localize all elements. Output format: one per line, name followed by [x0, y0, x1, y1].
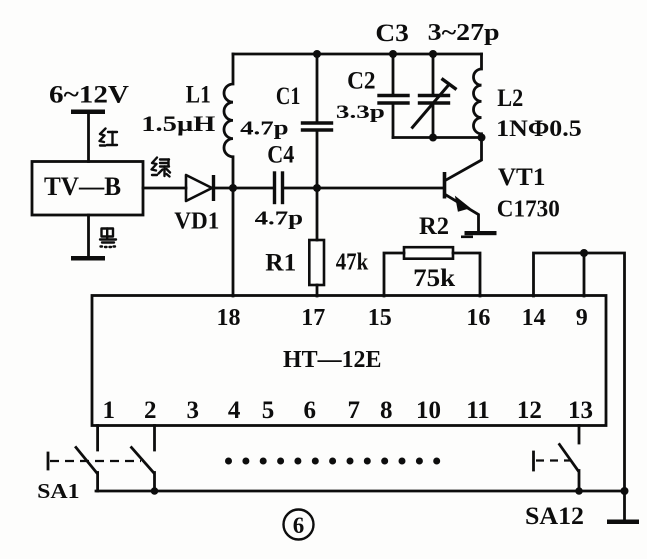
wire L2 to collector: [446, 138, 482, 181]
svg-text:16: 16: [466, 305, 490, 331]
svg-text:C2: C2: [347, 68, 376, 95]
svg-text:4: 4: [228, 397, 241, 424]
wire pin 14 strap: [534, 253, 585, 296]
svg-text:15: 15: [368, 305, 392, 331]
svg-text:17: 17: [301, 305, 325, 331]
svg-text:C1: C1: [276, 83, 301, 110]
ground rail: [96, 490, 625, 493]
wire node to C4: [233, 187, 273, 190]
svg-text:8: 8: [380, 397, 393, 424]
svg-text:TV—B: TV—B: [44, 172, 121, 201]
svg-text:14: 14: [522, 305, 546, 331]
wire R2 to pin 15: [384, 253, 404, 296]
svg-text:6: 6: [293, 513, 305, 538]
wire C2/C3 bottom rail: [393, 136, 482, 139]
wire R2 to pin 16: [453, 253, 480, 296]
node C3 bottom: [429, 134, 437, 142]
node pin 9 strap: [580, 249, 588, 257]
wire pin 13 stub: [578, 426, 581, 444]
wire pin 18: [232, 188, 235, 296]
svg-text:5: 5: [262, 397, 275, 424]
dots row of key matrix: [225, 458, 440, 465]
svg-text:3.3p: 3.3p: [336, 102, 385, 123]
ground (bottom right): [607, 491, 639, 524]
capacitor C4: [275, 173, 283, 203]
wire diode to node: [214, 187, 234, 190]
svg-text:1.5μH: 1.5μH: [141, 111, 215, 136]
label 红 (red): [100, 129, 118, 146]
wire C4 to base: [284, 187, 443, 190]
svg-text:C4: C4: [267, 142, 294, 169]
svg-text:1NΦ0.5: 1NΦ0.5: [496, 116, 582, 141]
svg-text:VD1: VD1: [174, 209, 219, 235]
svg-text:R2: R2: [419, 213, 449, 240]
node top of C3: [429, 50, 437, 58]
label 绿 (green): [152, 158, 171, 177]
capacitor C1: [303, 54, 332, 188]
svg-text:47k: 47k: [336, 250, 369, 276]
node top of C2: [389, 50, 397, 58]
wire strap to ground rail: [584, 253, 625, 491]
wire + terminal stem: [87, 114, 90, 162]
node L2 bottom: [478, 134, 486, 142]
svg-text:9: 9: [576, 305, 588, 331]
TV transmitter box TV-B: [32, 162, 143, 216]
svg-text:7: 7: [347, 397, 360, 424]
svg-text:6: 6: [303, 397, 316, 424]
svg-text:L1: L1: [186, 82, 211, 109]
wire - terminal stem: [87, 215, 90, 256]
svg-text:SA1: SA1: [37, 479, 80, 503]
node rail right end: [621, 487, 629, 495]
wire pin 1 stub: [96, 426, 99, 451]
battery terminal + bar: [71, 110, 105, 115]
switch SA1: [48, 448, 155, 492]
wire pin 9 stub: [583, 253, 586, 296]
svg-text:HT—12E: HT—12E: [283, 347, 382, 373]
capacitor C2: [379, 54, 408, 138]
node SA12 pole: [575, 487, 583, 495]
svg-text:13: 13: [568, 397, 593, 424]
label 黑 (black): [100, 229, 116, 248]
resistor R1: [309, 188, 324, 296]
wire pin 2 stub: [153, 426, 156, 451]
svg-text:75k: 75k: [413, 265, 455, 292]
svg-text:SA12: SA12: [525, 503, 584, 530]
figure number 6 circled: [284, 510, 314, 540]
svg-text:VT1: VT1: [498, 164, 546, 191]
svg-text:11: 11: [466, 397, 490, 424]
svg-text:L2: L2: [497, 85, 523, 112]
svg-text:C1730: C1730: [497, 197, 560, 223]
node SA1 pole on rail: [151, 487, 159, 495]
wire top rail: [233, 53, 482, 56]
battery terminal - bar: [71, 256, 105, 261]
svg-text:12: 12: [517, 397, 542, 424]
svg-text:3~27p: 3~27p: [428, 20, 500, 46]
diode VD1: [186, 175, 214, 201]
svg-text:R1: R1: [265, 250, 296, 277]
svg-text:6~12V: 6~12V: [49, 82, 129, 109]
inductor L1: [224, 54, 233, 188]
svg-text:4.7p: 4.7p: [255, 208, 304, 230]
node C1/C4/R1 junction: [313, 184, 321, 192]
svg-text:3: 3: [186, 397, 199, 424]
transistor VT1: [445, 172, 479, 231]
switch SA12: [534, 445, 580, 492]
svg-text:18: 18: [217, 305, 241, 331]
trimmer capacitor C3: [412, 54, 457, 138]
resistor R2: [404, 247, 453, 259]
node top of C1: [313, 50, 321, 58]
ground (emitter): [461, 231, 497, 238]
IC U1 HT-12E box: [92, 296, 606, 426]
svg-text:10: 10: [416, 397, 441, 424]
svg-text:4.7p: 4.7p: [240, 118, 289, 140]
wire TV-B output: [143, 187, 186, 190]
svg-text:2: 2: [144, 397, 157, 424]
node diode/L1 junction: [229, 184, 237, 192]
inductor L2: [473, 54, 481, 138]
svg-text:1: 1: [103, 397, 116, 424]
svg-text:C3: C3: [375, 20, 409, 47]
